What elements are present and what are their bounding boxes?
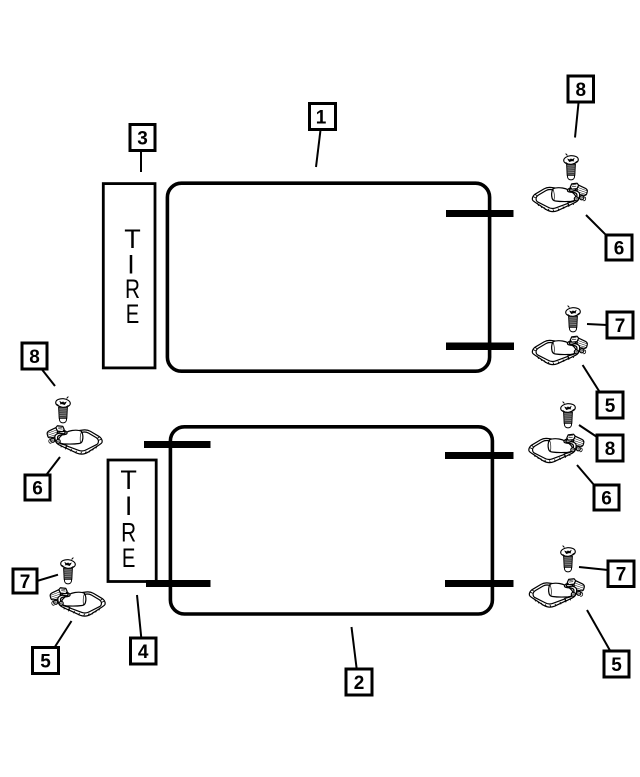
leader line to callout 2 [352,627,357,669]
callout 6 left [25,475,50,500]
svg-text:7: 7 [616,565,627,586]
wheel tick bottom-left 2 [146,580,211,587]
svg-text:6: 6 [601,488,612,509]
svg-text:6: 6 [32,478,43,499]
screw right-3 [560,402,575,428]
callout 1 [310,104,336,130]
leader line callout 6 left [47,457,60,475]
TPMS sensor right-2 [532,336,587,364]
leader line callout 5 right-2 [583,365,600,393]
leader line to callout 1 [316,130,321,167]
callout 2 [346,669,372,695]
callout 7 left [13,569,37,593]
callout 5 left [33,648,59,674]
callout 7 right-2 [607,312,633,338]
svg-text:4: 4 [138,642,149,663]
leader line callout 7 right-4 [579,567,608,570]
vehicle outline 1 (top rounded rectangle) [167,183,489,371]
callout 7 right-4 [608,561,634,587]
tire box 2 (bottom left, label TIRE) [108,460,156,582]
TPMS sensor right-4 [529,579,584,607]
tire box 1 (top left, label TIRE) [103,184,155,368]
svg-text:8: 8 [29,347,40,368]
svg-text:I: I [125,491,133,521]
wheel tick bottom-left 1 [144,441,211,448]
leader line callout 8 top-right [575,102,579,138]
svg-text:7: 7 [615,316,626,337]
wheel tick top-right 1 [446,210,514,217]
callout 8 left [22,343,47,369]
callout 8 top-right [568,76,594,102]
callout 6 right-3 [594,485,619,510]
wheel tick bottom-right 2 [445,580,514,587]
TPMS sensor right-1 [532,183,587,211]
svg-text:E: E [122,543,136,573]
svg-text:8: 8 [576,80,587,101]
leader line callout 7 right-2 [587,324,607,325]
leader line callout 6 right-3 [577,465,595,486]
leader line callout 7 left [37,575,58,581]
screw left-2 [60,558,75,584]
svg-text:6: 6 [614,238,625,259]
leader line callout 8 right-3 [579,425,597,437]
TPMS sensor left-1 [47,426,102,454]
callout 5 right-2 [597,392,623,418]
svg-text:8: 8 [605,439,616,460]
leader line to callout 3 [140,151,142,172]
wheel tick top-right 2 [446,343,514,351]
screw right-1 [563,154,578,180]
svg-text:5: 5 [40,651,51,672]
vehicle outline 2 (bottom rounded rectangle) [170,427,492,614]
leader line callout 6 right-1 [586,215,606,235]
leader line callout 5 right-4 [587,610,610,651]
svg-text:1: 1 [316,107,327,128]
screw right-2 [565,306,580,332]
screw left-1 [55,397,70,423]
svg-text:7: 7 [20,572,31,593]
svg-text:5: 5 [611,655,622,676]
callout 8 right-3 [597,435,623,461]
svg-text:E: E [126,299,140,329]
screw right-4 [560,546,575,572]
svg-text:3: 3 [137,128,148,149]
TPMS sensor left-2 [50,588,105,616]
svg-text:5: 5 [605,396,616,417]
wheel tick bottom-right 1 [445,452,514,459]
callout 3 [130,125,155,151]
svg-text:2: 2 [354,673,365,694]
TPMS sensor right-3 [529,434,584,462]
callout 6 right-1 [606,235,632,260]
leader line callout 5 left [55,621,72,648]
leader line to callout 4 [137,595,141,638]
callout 5 right-4 [604,651,629,677]
callout 4 [131,638,157,664]
leader line callout 8 left [42,370,55,387]
